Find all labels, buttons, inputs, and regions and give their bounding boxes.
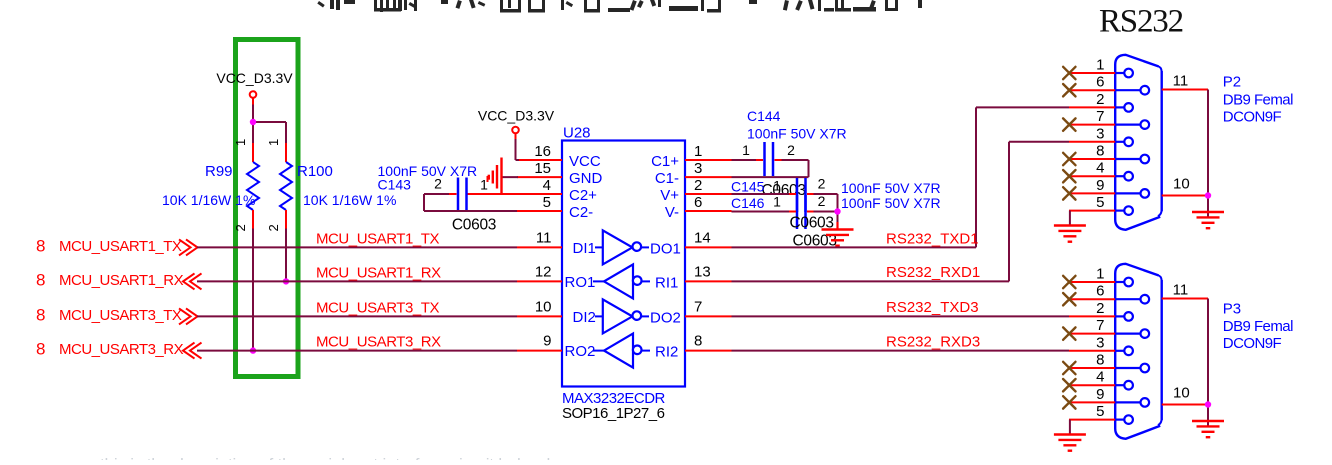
svg-text:U28: U28	[563, 125, 591, 142]
wire pin15 to ground	[502, 176, 519, 178]
junction dot C145/C146 ground	[834, 208, 840, 214]
svg-text:5: 5	[543, 194, 551, 211]
svg-text:12: 12	[535, 263, 552, 280]
svg-text:RO1: RO1	[565, 274, 596, 291]
ground (P2 shield)	[1192, 212, 1224, 228]
svg-text:RS232_TXD3: RS232_TXD3	[886, 299, 979, 316]
svg-text:VCC: VCC	[569, 153, 601, 170]
pin 1 C1+	[651, 143, 731, 170]
svg-text:4: 4	[1096, 369, 1104, 386]
svg-text:RI1: RI1	[655, 274, 678, 291]
svg-text:P2: P2	[1223, 74, 1241, 91]
P3 pin 3	[1069, 334, 1133, 355]
svg-text:2: 2	[1096, 300, 1104, 317]
svg-text:9: 9	[1096, 386, 1104, 403]
junction dot R99/RX3	[250, 347, 256, 353]
no-connect X on P2 pin 6	[1063, 84, 1075, 96]
svg-text:MCU_USART1_RX: MCU_USART1_RX	[59, 272, 184, 289]
svg-text:C145: C145	[731, 179, 765, 195]
svg-text:7: 7	[1096, 108, 1104, 125]
pin 2 V+	[660, 177, 731, 204]
svg-text:RS232_RXD3: RS232_RXD3	[886, 334, 980, 351]
ground (P3 shield)	[1192, 421, 1224, 437]
pin 16 VCC	[518, 143, 601, 170]
svg-text:DO2: DO2	[650, 309, 681, 326]
capacitor C145	[731, 176, 941, 213]
wire P2 shield to ground	[1207, 90, 1209, 218]
svg-text:MCU_USART3_TX: MCU_USART3_TX	[59, 307, 182, 324]
wire MCU_USART3_TX to U28	[197, 299, 517, 316]
svg-text:1: 1	[233, 139, 248, 146]
svg-text:2: 2	[233, 224, 248, 231]
connector P2 labels	[1223, 74, 1293, 126]
svg-text:DB9 Femal: DB9 Femal	[1223, 318, 1293, 335]
port MCU_USART1_RX (sheet entry 8)	[36, 270, 202, 289]
svg-text:2: 2	[1096, 91, 1104, 108]
svg-text:6: 6	[1096, 283, 1104, 300]
svg-text:6: 6	[1096, 74, 1104, 91]
no-connect X on P3 pin 6	[1063, 293, 1075, 305]
svg-text:C146: C146	[731, 195, 765, 211]
RS232 title	[1099, 4, 1183, 40]
buffer T3 DI2->DO2	[595, 299, 681, 333]
ground (P2 pin 5)	[1054, 226, 1086, 242]
no-connect X on P2 pin 1	[1063, 67, 1075, 79]
no-connect X on P3 pin 9	[1063, 396, 1075, 408]
svg-text:4: 4	[1096, 160, 1104, 177]
ground (pin 15, rotated)	[489, 158, 502, 196]
svg-text:100nF 50V X7R: 100nF 50V X7R	[841, 180, 941, 196]
P2 pin 8	[1069, 143, 1149, 164]
svg-text:14: 14	[694, 229, 711, 246]
no-connect X on P3 pin 4	[1063, 379, 1075, 391]
P3 pin 4	[1069, 369, 1133, 390]
svg-text:11: 11	[1173, 73, 1189, 90]
svg-text:8: 8	[1096, 143, 1104, 160]
no-connect X on P2 pin 9	[1063, 187, 1075, 199]
no-connect X on P3 pin 7	[1063, 327, 1075, 339]
pin 14 DO1	[685, 229, 732, 247]
wire RS232_TXD3	[732, 299, 1070, 316]
wire C145 left (V+)	[732, 193, 790, 195]
connector P2 DB9 shell	[1115, 55, 1162, 230]
P3 pin 2	[1069, 300, 1133, 321]
svg-text:DB9 Femal: DB9 Femal	[1223, 91, 1293, 108]
svg-text:C144: C144	[747, 108, 781, 124]
wire R99 bottom to MCU_USART3_RX	[252, 229, 254, 351]
P3 pin 1	[1069, 266, 1133, 287]
svg-text:1: 1	[1096, 57, 1104, 74]
svg-text:100nF 50V X7R: 100nF 50V X7R	[841, 195, 941, 211]
svg-text:10: 10	[1173, 385, 1190, 402]
svg-text:3: 3	[1096, 334, 1104, 351]
capacitor C144	[742, 108, 847, 199]
no-connect X on P2 pin 8	[1063, 153, 1075, 165]
P3 pin 9	[1069, 386, 1149, 407]
pin 8 RI2	[685, 333, 732, 351]
no-connect X on P3 pin 8	[1063, 362, 1075, 374]
P3 pin 5	[1069, 403, 1133, 424]
svg-text:RS232_TXD1: RS232_TXD1	[886, 231, 979, 248]
P2 pin 11	[1162, 73, 1208, 90]
green highlight box	[236, 40, 299, 377]
svg-text:this is the description of the: this is the description of the serial po…	[100, 455, 580, 460]
svg-text:8: 8	[1096, 352, 1104, 369]
wire C144 pin1 side	[732, 159, 757, 161]
wire P3 shield to ground	[1207, 299, 1209, 427]
svg-text:V+: V+	[660, 187, 679, 204]
svg-text:DI2: DI2	[573, 309, 596, 326]
svg-text:C2-: C2-	[569, 204, 593, 221]
svg-text:MCU_USART3_TX: MCU_USART3_TX	[316, 299, 440, 316]
wire R100 bottom to MCU_USART1_RX	[285, 229, 287, 282]
wire RS232_RXD3	[732, 334, 1070, 351]
svg-text:2: 2	[818, 176, 826, 192]
svg-text:10K 1/16W 1%: 10K 1/16W 1%	[162, 192, 255, 208]
no-connect X on P2 pin 7	[1063, 118, 1075, 130]
resistor R99	[162, 139, 259, 232]
wire RS232_TXD1	[732, 107, 1070, 247]
svg-text:2: 2	[434, 176, 442, 192]
svg-text:MCU_USART1_TX: MCU_USART1_TX	[316, 230, 440, 247]
wire MCU_USART1_RX to U28	[197, 264, 517, 281]
wire P3 pin5 to ground	[1069, 420, 1071, 435]
P2 pin 10	[1162, 176, 1208, 196]
svg-text:8: 8	[36, 340, 45, 359]
port MCU_USART3_RX (sheet entry 8)	[36, 340, 202, 359]
svg-text:6: 6	[694, 194, 702, 211]
buffer T2 RI1->RO1	[593, 264, 678, 298]
svg-text:1: 1	[742, 142, 750, 158]
svg-text:2: 2	[787, 142, 795, 158]
junction dot R100/RX1	[283, 278, 289, 284]
svg-text:1: 1	[266, 139, 281, 146]
pin 13 RI1	[685, 263, 732, 281]
svg-text:C0603: C0603	[452, 217, 496, 234]
P2 pin 1	[1069, 57, 1133, 78]
svg-text:2: 2	[266, 224, 281, 231]
junction dot P2 pin10/ground	[1205, 192, 1211, 198]
connector P3 labels	[1223, 301, 1293, 353]
P2 pin 2	[1069, 91, 1133, 112]
svg-text:DO1: DO1	[650, 240, 681, 257]
buffer T4 RI2->RO2	[593, 334, 678, 368]
wire VCC to pin 16	[516, 139, 520, 160]
wire C146 left (V-)	[732, 211, 790, 213]
svg-text:MCU_USART3_RX: MCU_USART3_RX	[59, 341, 184, 358]
svg-text:10: 10	[535, 298, 552, 315]
svg-text:5: 5	[1096, 194, 1104, 211]
capacitor C143	[378, 163, 497, 234]
pin 15 GND	[517, 160, 603, 187]
wire P2 pin5 to ground	[1069, 211, 1071, 226]
svg-text:MCU_USART1_TX: MCU_USART1_TX	[59, 238, 182, 255]
resistor R100	[266, 139, 396, 232]
svg-text:RS232: RS232	[1099, 4, 1183, 40]
svg-text:C1-: C1-	[655, 170, 679, 187]
svg-text:3: 3	[1096, 125, 1104, 142]
wire C146 right	[814, 211, 838, 213]
ground (P3 pin 5)	[1054, 435, 1086, 451]
svg-text:SOP16_1P27_6: SOP16_1P27_6	[562, 405, 665, 422]
svg-text:1: 1	[773, 194, 781, 210]
wire MCU_USART1_TX to U28	[197, 230, 517, 247]
svg-text:10K 1/16W 1%: 10K 1/16W 1%	[303, 192, 396, 208]
svg-text:GND: GND	[569, 170, 603, 187]
P2 pin 3	[1069, 125, 1133, 146]
svg-text:C143: C143	[378, 177, 412, 193]
svg-text:RO2: RO2	[565, 343, 596, 360]
svg-text:1: 1	[773, 178, 781, 194]
svg-text:1: 1	[1096, 266, 1104, 283]
svg-text:7: 7	[1096, 317, 1104, 334]
svg-text:V-: V-	[665, 204, 679, 221]
svg-text:13: 13	[694, 263, 711, 280]
ground (C145/C146)	[822, 222, 854, 246]
svg-text:16: 16	[534, 143, 551, 160]
P3 pin 8	[1069, 352, 1149, 373]
P2 pin 4	[1069, 160, 1133, 181]
svg-text:RS232_RXD1: RS232_RXD1	[886, 264, 980, 281]
svg-text:DCON9F: DCON9F	[1223, 108, 1282, 125]
svg-text:R100: R100	[297, 163, 333, 180]
P3 pin 10	[1162, 385, 1208, 405]
P2 pin 7	[1069, 108, 1149, 129]
svg-text:8: 8	[36, 270, 45, 289]
wire power to R99/R100 tops	[253, 105, 286, 144]
wire RS232_RXD1	[732, 142, 1070, 282]
svg-text:1: 1	[694, 143, 702, 160]
wire C143 left to pin 5 (C2-)	[424, 194, 517, 211]
wire C145 right to ground	[814, 194, 838, 226]
port MCU_USART3_TX (sheet entry 8)	[36, 305, 198, 324]
svg-text:C0603: C0603	[762, 182, 806, 199]
pin 5 C2-	[517, 194, 594, 221]
no-connect X on P2 pin 4	[1063, 170, 1075, 182]
svg-text:VCC_D3.3V: VCC_D3.3V	[478, 108, 555, 124]
svg-text:10: 10	[1173, 176, 1190, 193]
svg-text:11: 11	[1173, 282, 1189, 299]
svg-text:P3: P3	[1223, 301, 1241, 318]
port MCU_USART1_TX (sheet entry 8)	[36, 236, 198, 255]
svg-text:VCC_D3.3V: VCC_D3.3V	[216, 70, 293, 86]
svg-text:2: 2	[694, 177, 702, 194]
power symbol VCC_D3.3V (left)	[216, 70, 293, 105]
P2 pin 6	[1069, 74, 1149, 95]
P3 pin 11	[1162, 282, 1208, 299]
svg-text:MCU_USART1_RX: MCU_USART1_RX	[316, 264, 441, 281]
pin 3 C1-	[655, 160, 732, 187]
IC U28 MAX3232ECDR body	[562, 125, 685, 423]
P3 pin 7	[1069, 317, 1149, 338]
pin 9 RO2	[517, 333, 595, 361]
svg-text:100nF 50V X7R: 100nF 50V X7R	[747, 126, 847, 142]
svg-text:2: 2	[818, 193, 826, 209]
svg-text:8: 8	[694, 333, 702, 350]
P2 pin 5	[1069, 194, 1133, 215]
svg-text:C2+: C2+	[569, 187, 597, 204]
junction dot P3 pin10/ground	[1205, 401, 1211, 407]
svg-text:8: 8	[36, 236, 45, 255]
svg-text:DI1: DI1	[573, 240, 596, 257]
pin 6 V-	[665, 194, 732, 221]
svg-text:11: 11	[536, 229, 552, 246]
svg-text:DCON9F: DCON9F	[1223, 335, 1282, 352]
wire MCU_USART3_RX to U28	[197, 334, 517, 351]
no-connect X on P3 pin 1	[1063, 276, 1075, 288]
svg-text:R99: R99	[205, 163, 233, 180]
svg-text:8: 8	[36, 305, 45, 324]
pin 4 C2+	[468, 177, 598, 204]
svg-text:9: 9	[543, 333, 551, 350]
pin 12 RO1	[517, 263, 595, 291]
pin 10 DI2	[517, 298, 596, 326]
capacitor C146	[731, 193, 941, 250]
P3 pin 6	[1069, 283, 1149, 304]
connector P3 DB9 shell	[1115, 264, 1162, 439]
P2 pin 9	[1069, 177, 1149, 198]
svg-text:15: 15	[534, 160, 551, 177]
svg-text:4: 4	[543, 177, 551, 194]
bottom caption text (clipped)	[100, 455, 580, 465]
pin 7 DO2	[685, 298, 732, 316]
top caption text (clipped)	[317, 0, 922, 12]
svg-text:3: 3	[694, 160, 702, 177]
wire C144 pin2 side to C1-	[732, 160, 809, 177]
svg-text:7: 7	[694, 298, 702, 315]
junction dot at power branch	[250, 119, 256, 125]
power symbol VCC_D3.3V (U28)	[478, 108, 555, 140]
svg-text:5: 5	[1096, 403, 1104, 420]
svg-text:C1+: C1+	[651, 153, 679, 170]
svg-text:MCU_USART3_RX: MCU_USART3_RX	[316, 334, 441, 351]
svg-text:9: 9	[1096, 177, 1104, 194]
svg-text:RI2: RI2	[655, 344, 678, 361]
pin 11 DI1	[517, 229, 596, 257]
buffer T1 DI1->DO1	[595, 230, 681, 264]
